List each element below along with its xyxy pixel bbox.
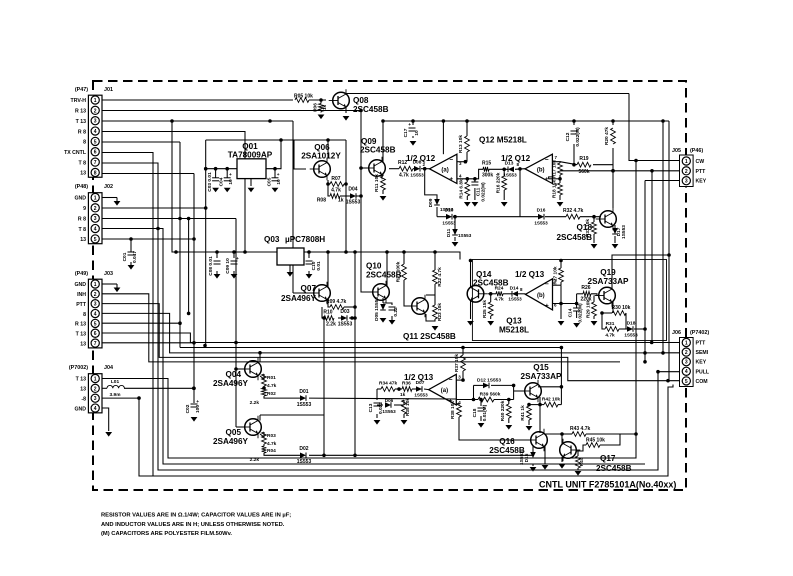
svg-text:2.2k: 2.2k: [326, 322, 336, 328]
svg-text:2SA496Y: 2SA496Y: [213, 379, 249, 388]
wire: [593, 316, 595, 319]
wire: [651, 171, 653, 343]
wire: [188, 219, 190, 314]
svg-text:1: 1: [94, 282, 97, 288]
svg-text:(P7402): (P7402): [690, 330, 709, 336]
wire: [466, 179, 468, 182]
wire: [663, 121, 680, 353]
svg-text:5: 5: [94, 321, 97, 327]
svg-text:D14: D14: [510, 286, 519, 292]
wire: [559, 195, 561, 200]
wire: [338, 317, 341, 319]
wire: [102, 120, 293, 122]
voltage regulator Q01 TA78009AP: [237, 159, 266, 179]
svg-text:R 13: R 13: [75, 322, 86, 328]
wire: [470, 261, 472, 288]
wire: [328, 184, 330, 196]
diode D09 1S553: [434, 199, 440, 205]
diode D11 1S553: [452, 229, 458, 235]
wire: [454, 237, 456, 241]
svg-text:T 8: T 8: [79, 227, 87, 233]
wire: [426, 294, 435, 296]
wire: [612, 301, 614, 313]
resistor R22 4.7k: [433, 270, 438, 284]
capacitor C01: [128, 251, 135, 253]
svg-text:1S553: 1S553: [346, 200, 361, 206]
wire: [573, 121, 575, 125]
svg-text:1S553: 1S553: [503, 173, 517, 178]
wire: [470, 301, 472, 319]
wire: [398, 389, 400, 391]
svg-text:(P46): (P46): [690, 148, 703, 154]
transistor Q11 2SC458B: [412, 298, 429, 315]
svg-text:(a): (a): [441, 167, 448, 173]
diode D07 1S553: [416, 386, 422, 392]
svg-text:4: 4: [94, 311, 97, 317]
wire: [458, 403, 460, 405]
resistor R35 10k: [402, 400, 407, 414]
wire: [612, 148, 614, 171]
wire: [475, 169, 483, 179]
wire: [391, 316, 393, 320]
wire: [340, 195, 350, 197]
svg-text:D06: D06: [385, 398, 394, 403]
svg-text:R34 47k: R34 47k: [379, 381, 397, 387]
capacitor C16 0.01(M): [478, 407, 485, 409]
wire: [412, 136, 414, 138]
wire: [474, 384, 484, 386]
wire: [102, 333, 190, 343]
wire: [322, 307, 324, 318]
svg-text:8: 8: [83, 140, 86, 146]
svg-text:µPC7808H: µPC7808H: [285, 235, 325, 244]
diode D06 1S553: [385, 402, 391, 408]
svg-text:4.7k: 4.7k: [331, 188, 341, 194]
svg-text:INH: INH: [77, 292, 86, 298]
svg-text:R27 10k: R27 10k: [553, 266, 559, 284]
wire: [577, 468, 579, 470]
wire: [308, 252, 310, 258]
resistor R21 100k: [402, 264, 407, 280]
svg-text:4.7k: 4.7k: [267, 383, 277, 389]
svg-text:R07: R07: [331, 176, 340, 182]
wire: [102, 153, 153, 477]
resistor R40 220k: [506, 404, 511, 418]
wire: [403, 400, 405, 405]
svg-text:J03: J03: [104, 271, 113, 277]
transistor Q07 2SA496Y: [314, 285, 331, 302]
wire: [562, 433, 572, 435]
svg-text:R37 10k: R37 10k: [454, 354, 460, 372]
transistor Q14 2SC458B: [467, 286, 484, 303]
svg-text:1: 1: [685, 159, 688, 165]
wire: [386, 252, 388, 286]
svg-text:−: −: [449, 156, 453, 163]
wire: [560, 170, 682, 172]
capacitor C13 0.22: [389, 306, 396, 308]
wire: [593, 296, 595, 303]
svg-text:COM: COM: [696, 379, 708, 385]
svg-text:R18 15k: R18 15k: [552, 180, 558, 198]
wire: [559, 175, 561, 183]
wire: [320, 112, 322, 113]
wire: [457, 161, 467, 163]
resistor R43 4.7k: [572, 432, 586, 437]
svg-text:Q16: Q16: [499, 437, 515, 446]
wire: [549, 178, 560, 180]
wire: [560, 285, 562, 303]
wire: [102, 283, 117, 285]
svg-text:Q11 2SC458B: Q11 2SC458B: [403, 332, 456, 341]
svg-text:R25 15k: R25 15k: [482, 300, 488, 318]
wire: [383, 303, 392, 305]
svg-text:3.9m: 3.9m: [110, 392, 121, 398]
svg-text:R12: R12: [398, 160, 407, 166]
wire: [552, 162, 560, 163]
wire: [593, 234, 595, 243]
resistor R14 6.8k: [465, 182, 470, 196]
svg-text:1k: 1k: [400, 392, 406, 398]
svg-text:10: 10: [276, 179, 282, 185]
svg-text:R36: R36: [402, 381, 411, 387]
svg-text:300k: 300k: [482, 173, 493, 179]
wire: [102, 385, 673, 477]
wire: [528, 420, 530, 425]
svg-text:4: 4: [94, 129, 97, 135]
svg-text:D05 1S553: D05 1S553: [374, 297, 380, 321]
wire: [593, 164, 613, 166]
resistor R12 4.7k: [399, 166, 413, 171]
svg-text:8: 8: [94, 170, 97, 176]
wire: [389, 168, 399, 170]
wire: [488, 293, 496, 295]
svg-text:KEY: KEY: [696, 360, 707, 366]
svg-text:2SC458B: 2SC458B: [596, 464, 632, 473]
diode D10 1S553: [446, 214, 452, 220]
svg-text:R 8: R 8: [78, 129, 86, 135]
diode D18 1S553: [627, 326, 633, 332]
svg-text:(b): (b): [537, 167, 545, 173]
wire: [102, 408, 109, 431]
transistor Q06 2SA1012Y: [314, 161, 331, 178]
wire: [456, 379, 463, 381]
svg-text:2SA733AP: 2SA733AP: [588, 277, 630, 286]
wire: [102, 110, 361, 112]
svg-text:1S553: 1S553: [519, 451, 525, 465]
svg-text:J05: J05: [672, 148, 681, 154]
svg-text:3: 3: [685, 179, 688, 185]
wire: [426, 314, 435, 321]
resistor R13 10k: [465, 136, 470, 152]
svg-text:(a): (a): [441, 388, 448, 394]
svg-text:13: 13: [80, 341, 86, 347]
wire: [193, 388, 195, 403]
wire: [264, 396, 300, 398]
svg-text:7: 7: [94, 160, 97, 166]
wire: [344, 183, 346, 185]
resistor R09 4.7k: [330, 305, 344, 310]
resistor R31 4.7k: [605, 327, 619, 332]
wire: [474, 188, 476, 200]
svg-text:+: +: [229, 173, 232, 178]
voltage regulator Q03 uPC7808H: [277, 248, 304, 265]
svg-text:1k: 1k: [322, 105, 328, 111]
wire: [513, 385, 515, 399]
wire: [130, 262, 132, 265]
wire: [612, 255, 669, 289]
svg-text:2.2k: 2.2k: [250, 457, 260, 463]
svg-text:D02: D02: [299, 446, 308, 452]
resistor R07 4.7k: [330, 182, 344, 187]
wire: [180, 347, 561, 349]
resistor R05 10k: [295, 98, 309, 103]
svg-text:D10: D10: [445, 208, 454, 214]
wire: [518, 293, 525, 295]
resistor R32 4.7k: [566, 214, 580, 219]
svg-text:C02: C02: [185, 404, 191, 413]
svg-text:R24: R24: [495, 286, 504, 292]
svg-text:R 8: R 8: [78, 216, 86, 222]
wire: [480, 400, 482, 407]
svg-text:AND INDUCTOR VALUES ARE IN H;: AND INDUCTOR VALUES ARE IN H; UNLESS OTH…: [101, 522, 285, 528]
wire: [190, 342, 680, 344]
wire: [102, 229, 645, 465]
wire: [289, 265, 291, 272]
svg-text:C17: C17: [403, 128, 409, 137]
svg-text:2SA496Y: 2SA496Y: [281, 294, 317, 303]
diode D03 1S553: [341, 315, 347, 321]
wire: [560, 162, 577, 165]
resistor R17 10k: [558, 163, 563, 175]
svg-text:13: 13: [80, 387, 86, 393]
svg-text:2SA733AP: 2SA733AP: [521, 372, 563, 381]
svg-text:D08: D08: [413, 160, 422, 166]
svg-text:0.022(M): 0.022(M): [575, 127, 581, 147]
wire: [473, 385, 475, 399]
capacitor C12 0.022(M): [571, 130, 578, 132]
svg-text:R16 220k: R16 220k: [496, 172, 502, 193]
svg-text:GND: GND: [74, 282, 86, 288]
wire: [376, 389, 378, 400]
resistor R11 10k: [381, 176, 386, 190]
resistor R33 10k: [592, 222, 597, 234]
wire: [320, 100, 322, 104]
capacitor C13 0.022: [374, 402, 381, 404]
wire: [612, 171, 614, 208]
svg-text:KEY: KEY: [696, 179, 707, 185]
wire: [235, 219, 237, 428]
resistor R02 2.2k: [262, 388, 267, 396]
svg-text:R35 10k: R35 10k: [405, 398, 411, 416]
diode D01 1S553: [300, 395, 306, 401]
svg-text:4: 4: [685, 369, 688, 375]
wire: [442, 121, 444, 154]
svg-text:3: 3: [94, 396, 97, 402]
transistor Q09 2SC458B: [369, 160, 386, 177]
wire: [560, 304, 562, 320]
transistor Q16 2SC458B: [531, 432, 548, 449]
svg-text:5: 5: [94, 237, 97, 243]
svg-text:PULL: PULL: [696, 369, 710, 375]
svg-text:1/2 Q13: 1/2 Q13: [515, 270, 545, 279]
svg-text:100: 100: [195, 405, 201, 413]
svg-text:2SA1012Y: 2SA1012Y: [301, 152, 341, 161]
wire: [328, 299, 330, 307]
junction dots: [319, 98, 323, 102]
capacitor C08: [214, 260, 221, 262]
svg-text:1S553: 1S553: [414, 393, 428, 398]
transistor Q05 2SA496Y: [245, 419, 262, 436]
section box Q13: [472, 260, 666, 341]
wire: [102, 342, 194, 344]
svg-text:4: 4: [94, 406, 97, 412]
wire: [382, 298, 384, 303]
svg-text:13: 13: [80, 237, 86, 243]
wire: [459, 417, 531, 440]
svg-text:+: +: [277, 173, 280, 178]
svg-text:-8: -8: [81, 396, 86, 402]
svg-text:J06: J06: [672, 330, 681, 336]
wire: [354, 252, 356, 455]
svg-text:D11: D11: [446, 228, 452, 237]
svg-text:C01: C01: [122, 252, 128, 261]
wire: [508, 418, 510, 423]
diode D15 1S553: [530, 452, 536, 458]
wire: [494, 399, 514, 401]
svg-text:R09 4.7k: R09 4.7k: [326, 299, 347, 305]
svg-text:Q12 M5218L: Q12 M5218L: [479, 136, 527, 145]
svg-text:C09 10: C09 10: [225, 258, 231, 274]
wire: [382, 174, 384, 176]
svg-text:C05: C05: [267, 177, 273, 186]
svg-text:M5218L: M5218L: [499, 326, 529, 335]
svg-text:2.2k: 2.2k: [250, 400, 260, 406]
resistor R01 4.7k: [262, 374, 267, 386]
svg-text:C04: C04: [219, 177, 225, 186]
svg-text:R03: R03: [267, 433, 276, 439]
diode D17 1S553: [612, 228, 618, 234]
wire: [236, 426, 246, 428]
wire: [576, 445, 586, 451]
wire: [216, 252, 218, 258]
svg-text:R39 560k: R39 560k: [480, 392, 501, 398]
wire: [260, 432, 264, 437]
svg-text:RESISTOR VALUES ARE IN Ω.1/4W;: RESISTOR VALUES ARE IN Ω.1/4W; CAPACITOR…: [101, 513, 291, 519]
wire: [614, 225, 616, 228]
svg-text:D07: D07: [416, 380, 425, 386]
svg-text:D01: D01: [299, 389, 308, 395]
wire: [474, 179, 476, 182]
svg-text:J02: J02: [104, 184, 113, 190]
wire: [437, 216, 446, 218]
svg-text:D09: D09: [428, 198, 434, 207]
diode D13 1S553: [508, 167, 514, 173]
svg-text:TRV-H: TRV-H: [71, 98, 87, 104]
wire: [403, 252, 405, 264]
wire: [545, 433, 562, 435]
wire: [490, 294, 492, 302]
svg-text:C18: C18: [472, 408, 478, 417]
svg-text:R06: R06: [313, 103, 319, 112]
wire: [491, 384, 514, 386]
capacitor C09: [231, 260, 238, 262]
resistor R27 10k: [559, 268, 564, 282]
svg-text:4: 4: [94, 226, 97, 232]
svg-text:D04: D04: [348, 187, 357, 193]
svg-text:3: 3: [685, 360, 688, 366]
svg-text:R32 4.7k: R32 4.7k: [563, 208, 584, 214]
svg-text:0.01: 0.01: [316, 261, 322, 271]
svg-text:D12 1S553: D12 1S553: [477, 378, 501, 384]
svg-text:0.022(M): 0.022(M): [481, 182, 487, 202]
board outline dashed border: [93, 81, 686, 490]
svg-text:T 13: T 13: [76, 377, 86, 383]
svg-text:C08 0.01: C08 0.01: [208, 256, 214, 276]
wire: [466, 121, 468, 136]
diode D08 1S553: [414, 166, 420, 172]
resistor R08 1k: [330, 194, 340, 199]
wire: [436, 207, 438, 217]
wire: [260, 414, 324, 416]
svg-text:R22 4.7k: R22 4.7k: [437, 267, 443, 287]
svg-text:SEMI: SEMI: [696, 350, 709, 356]
wire: [580, 216, 601, 218]
wire: [376, 414, 378, 418]
wire: [629, 94, 680, 161]
svg-text:R 13: R 13: [75, 109, 86, 115]
svg-text:R29 10k: R29 10k: [586, 300, 592, 318]
resistor R19 560k: [577, 162, 591, 167]
wire: [383, 120, 669, 122]
wire: [308, 271, 310, 274]
svg-text:R23 10k: R23 10k: [437, 303, 443, 321]
svg-text:2: 2: [685, 350, 688, 356]
wire: [558, 404, 561, 406]
svg-text:C14: C14: [568, 308, 574, 317]
svg-text:GND: GND: [74, 406, 86, 412]
resistor R16 220k: [502, 176, 507, 190]
resistor R39 560k: [478, 397, 494, 402]
transistor Q15 2SA733AP: [525, 383, 542, 400]
svg-text:1: 1: [94, 376, 97, 382]
wire: [172, 121, 277, 252]
wire: [561, 434, 563, 444]
wire: [424, 388, 429, 391]
wire: [480, 416, 482, 421]
wire: [573, 144, 575, 165]
svg-text:T 13: T 13: [76, 331, 86, 337]
wire: [281, 139, 346, 141]
wire: [102, 99, 293, 101]
svg-text:560k: 560k: [578, 169, 589, 175]
resistor R38 10k: [457, 403, 462, 417]
capacitor C14 0.022(M): [573, 307, 580, 309]
svg-text:(P47): (P47): [75, 87, 88, 93]
wire: [593, 217, 595, 222]
svg-text:TX CNTL: TX CNTL: [64, 150, 87, 156]
wire: [532, 464, 534, 466]
wire: [560, 348, 562, 405]
svg-text:2SA496Y: 2SA496Y: [213, 437, 249, 446]
wire: [360, 111, 362, 197]
svg-text:(P48): (P48): [75, 184, 88, 190]
svg-text:4.7k: 4.7k: [399, 173, 409, 179]
svg-text:−: −: [449, 377, 453, 384]
svg-text:R31: R31: [606, 321, 615, 327]
wire: [412, 121, 414, 125]
svg-text:1S553: 1S553: [621, 225, 627, 239]
wire: [539, 397, 541, 433]
